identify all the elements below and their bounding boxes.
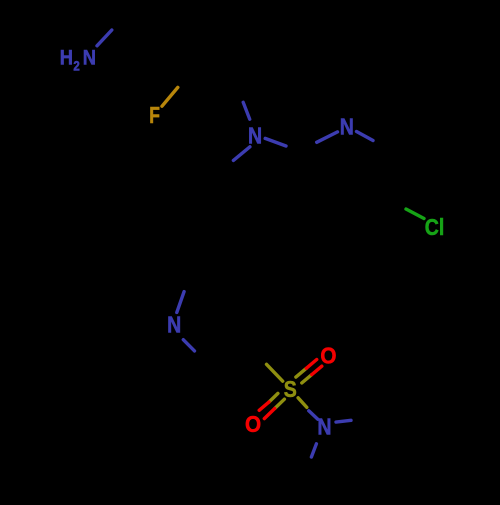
svg-text:N: N — [340, 114, 354, 140]
svg-text:Cl: Cl — [425, 215, 445, 241]
svg-text:O: O — [245, 411, 261, 437]
svg-text:F: F — [149, 104, 160, 129]
svg-text:2: 2 — [73, 59, 79, 74]
svg-text:N: N — [248, 123, 262, 149]
svg-text:N: N — [167, 312, 181, 338]
svg-text:S: S — [284, 377, 297, 403]
svg-text:N: N — [83, 46, 96, 70]
svg-text:N: N — [317, 414, 331, 440]
svg-text:O: O — [320, 342, 336, 368]
svg-text:H: H — [60, 46, 73, 70]
